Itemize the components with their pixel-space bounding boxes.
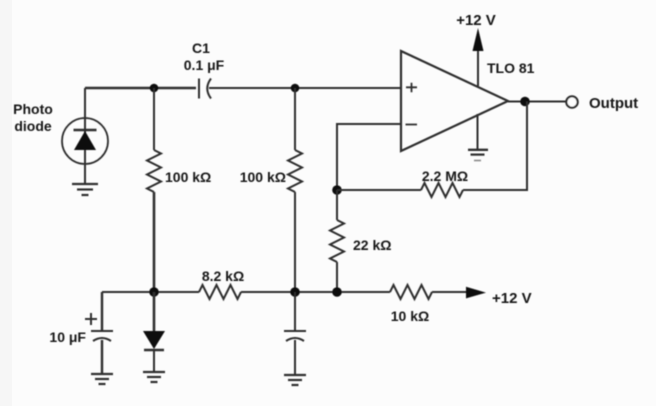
wire bottom rail middle bbox=[241, 291, 390, 293]
svg-text:22 kΩ: 22 kΩ bbox=[353, 237, 391, 253]
svg-text:diode: diode bbox=[14, 118, 52, 134]
capacitor C2 10 uF bbox=[85, 292, 113, 374]
node output junction bbox=[520, 97, 530, 107]
label TLO 81 bbox=[487, 60, 535, 76]
resistor R4 22 kOhm (vertical) bbox=[330, 190, 344, 292]
label 10 uF bbox=[49, 329, 86, 345]
label +12 V bottom bbox=[492, 290, 532, 307]
svg-text:100 kΩ: 100 kΩ bbox=[240, 169, 286, 185]
label +12 V top bbox=[456, 12, 496, 29]
resistor R2 100 kOhm (right vertical) bbox=[288, 88, 302, 292]
label Photo diode bbox=[13, 101, 53, 134]
photodiode D1 bbox=[62, 88, 108, 183]
wire bottom rail left bbox=[102, 291, 199, 293]
label 10 kOhm bbox=[391, 308, 429, 324]
resistor R5 8.2 kOhm (horizontal) bbox=[199, 285, 241, 299]
wire top from C1 to op-amp + input bbox=[209, 87, 401, 89]
svg-text:10 kΩ: 10 kΩ bbox=[391, 308, 429, 324]
svg-text:Output: Output bbox=[589, 95, 638, 112]
wire output from op-amp bbox=[508, 101, 566, 103]
resistor R6 10 kOhm (horizontal) bbox=[390, 285, 432, 299]
ground under C2 bbox=[91, 374, 113, 384]
svg-text:0.1 μF: 0.1 μF bbox=[184, 57, 225, 73]
svg-text:2.2 MΩ: 2.2 MΩ bbox=[422, 168, 468, 184]
label 0.1 uF bbox=[184, 57, 225, 73]
ground under C3 bbox=[284, 375, 306, 385]
ground under op-amp bbox=[468, 114, 488, 161]
wire inverting input to feedback node bbox=[337, 124, 401, 190]
svg-text:10 μF: 10 μF bbox=[49, 329, 86, 345]
node junction diode top bbox=[149, 287, 159, 297]
+12V supply arrow (top) bbox=[473, 28, 484, 86]
node junction at R2 top bbox=[291, 84, 300, 93]
svg-text:+12 V: +12 V bbox=[492, 290, 532, 307]
svg-text:C1: C1 bbox=[192, 40, 210, 56]
svg-text:+12 V: +12 V bbox=[456, 12, 496, 29]
op-amp U1 bbox=[401, 51, 508, 151]
label 100 kOhm left bbox=[165, 169, 211, 185]
label 8.2 kOhm bbox=[202, 268, 244, 284]
label 22 kOhm bbox=[353, 237, 391, 253]
node junction at R1 top bbox=[150, 84, 159, 93]
node junction cap C3 top bbox=[290, 287, 300, 297]
ground under photodiode bbox=[72, 184, 98, 195]
+12V supply arrow (bottom right) bbox=[432, 287, 486, 299]
capacitor C1 bbox=[199, 79, 211, 99]
resistor R3 2.2 MOhm (feedback) bbox=[337, 102, 527, 198]
node feedback junction bbox=[332, 185, 342, 195]
svg-text:8.2 kΩ: 8.2 kΩ bbox=[202, 268, 244, 284]
label C1 bbox=[192, 40, 210, 56]
node junction 22k bottom bbox=[332, 287, 342, 297]
wire top from photodiode to C1 bbox=[85, 87, 196, 89]
svg-text:Photo: Photo bbox=[13, 101, 53, 117]
svg-text:100 kΩ: 100 kΩ bbox=[165, 169, 211, 185]
ground under D2 bbox=[143, 372, 165, 382]
diode D2 bbox=[143, 292, 165, 371]
output terminal circle bbox=[566, 96, 577, 107]
svg-text:TLO 81: TLO 81 bbox=[487, 60, 535, 76]
label Output bbox=[589, 95, 638, 112]
resistor R1 100 kOhm (left vertical) bbox=[147, 88, 161, 292]
capacitor C3 bbox=[284, 292, 306, 375]
label 2.2 MOhm bbox=[422, 168, 468, 184]
label 100 kOhm right bbox=[240, 169, 286, 185]
